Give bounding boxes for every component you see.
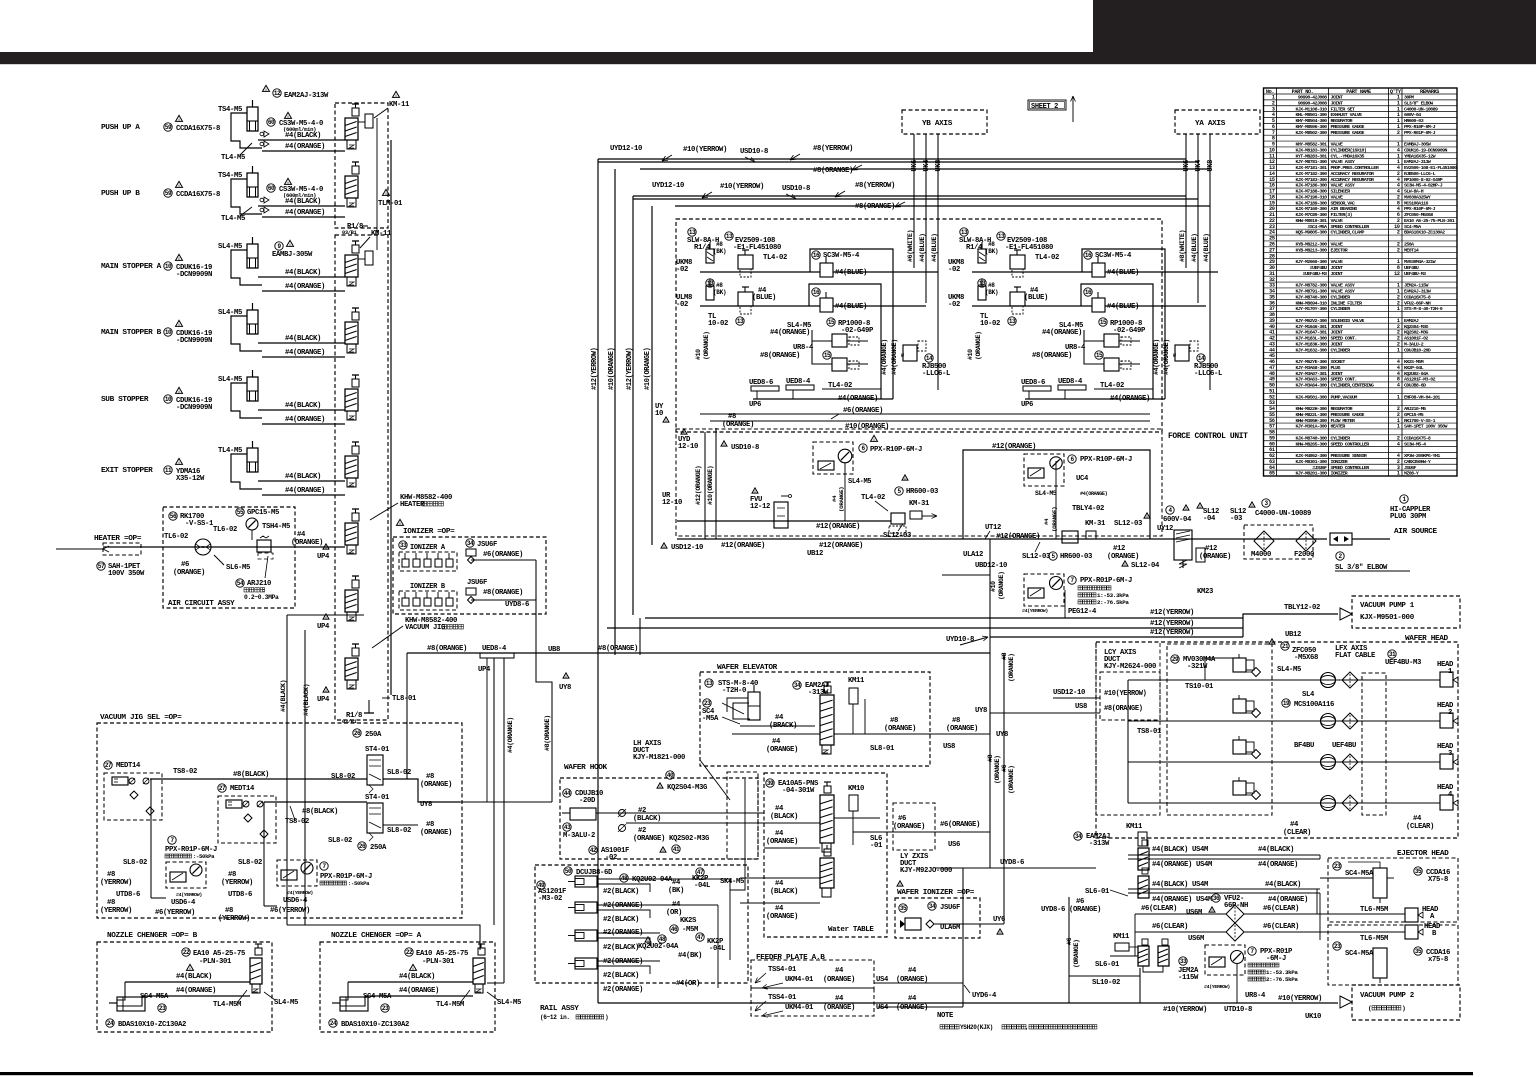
svg-text:KQ2U02-04A: KQ2U02-04A: [632, 876, 673, 884]
main air source bus: [677, 538, 1327, 540]
svg-text:#8(BLACK): #8(BLACK): [233, 771, 269, 779]
svg-text:KYB-M8213-300: KYB-M8213-300: [1295, 247, 1327, 253]
svg-text:ST4-01: ST4-01: [365, 794, 390, 802]
svg-text:CDUJB10-20D: CDUJB10-20D: [1404, 347, 1431, 353]
svg-text:C4000-UN-10089: C4000-UN-10089: [1255, 510, 1311, 518]
svg-text:15: 15: [824, 352, 831, 359]
svg-text:KJX-M7160-300: KJX-M7160-300: [1295, 206, 1327, 212]
svg-text:AS1001F-02: AS1001F-02: [1404, 336, 1428, 342]
svg-text:(BK): (BK): [713, 248, 726, 255]
svg-text:#10: #10: [990, 581, 997, 592]
svg-text:HEATER: HEATER: [1331, 424, 1346, 430]
svg-text:KHW-M8919-301: KHW-M8919-301: [1295, 218, 1327, 224]
head channel 4: [1128, 802, 1440, 804]
svg-text:FEEDER PLATE A.B: FEEDER PLATE A.B: [756, 954, 825, 962]
svg-text:!: !: [325, 616, 328, 622]
svg-text:#4(ORANGE): #4(ORANGE): [1258, 861, 1298, 869]
svg-text:): ): [605, 1014, 608, 1021]
svg-text:-01: -01: [870, 842, 883, 850]
svg-text:46: 46: [671, 926, 678, 933]
svg-text:1: 1: [1397, 347, 1400, 353]
svg-text:UY8: UY8: [559, 684, 571, 692]
svg-text:SL6-01: SL6-01: [1095, 961, 1120, 969]
vacuum jig sel dashed box: [97, 723, 462, 918]
svg-text:NOTE: NOTE: [937, 1012, 954, 1020]
svg-text:1: 1: [1397, 471, 1400, 477]
svg-text:(ORANGE) KQ2S02-M3G: (ORANGE) KQ2S02-M3G: [633, 835, 709, 843]
YB AXIS box: [902, 110, 987, 134]
part number SUB STOPPER: [164, 395, 172, 403]
svg-text:!: !: [325, 689, 328, 695]
svg-text:US6: US6: [948, 841, 960, 849]
svg-text:SOCKET: SOCKET: [1331, 359, 1346, 365]
svg-text:100V 350W: 100V 350W: [108, 570, 145, 578]
svg-text:#4: #4: [908, 995, 917, 1003]
svg-text:-04: -04: [1203, 515, 1216, 523]
svg-text:VACUUM PUMP 1: VACUUM PUMP 1: [1360, 602, 1415, 610]
svg-text:#10(YERROW): #10(YERROW): [720, 183, 764, 191]
svg-text:13: 13: [726, 233, 733, 240]
svg-text:10-02: 10-02: [708, 320, 728, 328]
svg-text:EXHAUST VALVE: EXHAUST VALVE: [1331, 112, 1363, 118]
svg-text:4: 4: [1397, 383, 1400, 389]
svg-text:(BK): (BK): [985, 289, 998, 296]
svg-text:M-3ALU-2: M-3ALU-2: [563, 832, 595, 840]
air circuit assy dashed box: [163, 507, 295, 608]
svg-text:54: 54: [237, 580, 244, 587]
svg-text:PUSH UP B: PUSH UP B: [101, 190, 140, 198]
svg-text:UB12: UB12: [1285, 631, 1301, 639]
svg-text:(BK): (BK): [713, 289, 726, 296]
svg-text:#12(ORANGE): #12(ORANGE): [992, 443, 1036, 451]
svg-text:1:-53.3kPa: 1:-53.3kPa: [1266, 969, 1298, 976]
svg-text:BF4BU: BF4BU: [1294, 742, 1314, 750]
svg-text:15: 15: [1100, 319, 1107, 326]
svg-text:2: 2: [1397, 247, 1400, 253]
svg-text:KM11: KM11: [848, 677, 865, 685]
svg-text:BDAS10X10-ZC130A2: BDAS10X10-ZC130A2: [341, 1021, 409, 1029]
svg-text:-6M-J: -6M-J: [1266, 955, 1286, 963]
svg-text:#8(ORANGE): #8(ORANGE): [1104, 705, 1143, 713]
duct outer dashed: [1096, 642, 1160, 815]
svg-text:#4: #4: [1043, 518, 1050, 525]
svg-text:SILENCER: SILENCER: [1331, 189, 1351, 195]
svg-text:UYD8-6: UYD8-6: [505, 601, 529, 609]
svg-text:#4(ORANGE) US4M: #4(ORANGE) US4M: [1152, 861, 1212, 869]
mid horizontal orange bus: [407, 652, 990, 654]
svg-text:#4(ORANGE): #4(ORANGE): [399, 987, 439, 995]
svg-text:UY8: UY8: [996, 731, 1008, 739]
svg-text:#4(ORANGE): #4(ORANGE): [176, 987, 216, 995]
svg-text:TL6-M5M: TL6-M5M: [1360, 935, 1388, 943]
svg-text:26: 26: [359, 843, 366, 850]
svg-text:KJY-M183K-300: KJY-M183K-300: [1295, 341, 1327, 347]
svg-text:MAIN STOPPER A: MAIN STOPPER A: [101, 263, 162, 271]
svg-text:UYD8-6: UYD8-6: [1041, 906, 1065, 914]
svg-text:SL12-03: SL12-03: [1114, 520, 1142, 528]
svg-text:UP4: UP4: [317, 553, 330, 561]
svg-text:MEDT14: MEDT14: [116, 762, 141, 770]
svg-text:#4(ORANGE): #4(ORANGE): [285, 209, 325, 217]
svg-text:KJX-M7182-300: KJX-M7182-300: [1295, 171, 1327, 177]
svg-text:PPX-R01P-6M-J: PPX-R01P-6M-J: [1080, 577, 1132, 585]
cylinder STS-M-8-40: [705, 679, 713, 687]
svg-text:UTD10-8: UTD10-8: [1224, 1006, 1252, 1014]
svg-text:-02: -02: [948, 301, 960, 309]
svg-text:SL8-02: SL8-02: [328, 837, 352, 845]
gauge PPX-R10P-6M-J left: [871, 435, 878, 441]
labels UYD 12-10: [681, 429, 687, 434]
heater load box: [103, 543, 141, 555]
svg-text:!: !: [665, 419, 668, 425]
wires jem2a: [1110, 955, 1138, 957]
silencer row2: [706, 279, 714, 287]
svg-text:#4(BLACK) US4M: #4(BLACK) US4M: [1152, 846, 1208, 854]
svg-text:US8: US8: [943, 743, 955, 751]
ejector cylinder 1: [1333, 862, 1341, 870]
part number EXIT STOPPER: [164, 466, 172, 474]
svg-text:SC3W-M5-4: SC3W-M5-4: [1404, 441, 1426, 447]
svg-text:#8: #8: [107, 899, 115, 907]
bottom yerrow bus: [598, 1002, 1338, 1004]
svg-text:US6M: US6M: [1188, 935, 1204, 943]
svg-text:42: 42: [590, 847, 597, 854]
svg-text:#6(CLEAR): #6(CLEAR): [1263, 923, 1299, 931]
svg-text:UYD6-4: UYD6-4: [972, 992, 997, 1000]
svg-text:VALVE: VALVE: [1331, 242, 1344, 248]
head bank feed lines: [1127, 680, 1129, 803]
svg-text:TL6-M5M: TL6-M5M: [1360, 906, 1388, 914]
ionizer drop wire: [535, 560, 537, 600]
svg-text:(ORANGE): (ORANGE): [291, 539, 323, 547]
svg-text:SPEED CONT.: SPEED CONT.: [1331, 377, 1357, 383]
svg-text:!: !: [399, 522, 402, 528]
svg-text:CYL.-YMDA16X35: CYL.-YMDA16X35: [1331, 153, 1365, 159]
svg-text:PRESSURE GAUGE: PRESSURE GAUGE: [1331, 124, 1365, 130]
svg-text:UC4: UC4: [1076, 475, 1089, 483]
svg-text:SL4-M5: SL4-M5: [1277, 666, 1301, 674]
svg-text:KJX-M7C89-300: KJX-M7C89-300: [1295, 212, 1327, 218]
svg-text:HEATER =OP=: HEATER =OP=: [94, 535, 142, 543]
svg-text:!: !: [178, 461, 181, 467]
svg-text:#12(ORANGE): #12(ORANGE): [721, 542, 765, 550]
heater SAH-1PET: [97, 562, 105, 570]
svg-text:#10: #10: [967, 349, 974, 360]
svg-text:!: !: [1185, 507, 1188, 513]
svg-text:EA10 A5-25-75: EA10 A5-25-75: [416, 950, 468, 958]
svg-text:EAM2AJ-313W: EAM2AJ-313W: [284, 92, 329, 100]
svg-text:SL12-03: SL12-03: [1022, 553, 1050, 561]
svg-text:JOINT: JOINT: [1331, 265, 1344, 271]
svg-text:KJY-M3A07-301: KJY-M3A07-301: [1295, 371, 1327, 377]
svg-text:SL6-M5: SL6-M5: [226, 564, 250, 572]
svg-text:UR8-4: UR8-4: [1065, 344, 1086, 352]
svg-text:KJX-M7183-300: KJX-M7183-300: [1295, 177, 1327, 183]
valve SC3W row2: [812, 288, 820, 296]
svg-text:19: 19: [1283, 700, 1290, 707]
flat cable dashed box: [1362, 673, 1386, 815]
svg-text:(ORANGE): (ORANGE): [1008, 653, 1015, 682]
svg-text:#4(ORANGE): #4(ORANGE): [285, 416, 325, 424]
svg-text:IONIZER: IONIZER: [1331, 471, 1348, 477]
svg-text:#12(ORANGE): #12(ORANGE): [816, 523, 860, 531]
svg-text:SC3W-M5-4-02HP-J: SC3W-M5-4-02HP-J: [1404, 183, 1443, 189]
svg-text:36: 36: [1213, 895, 1220, 902]
svg-text:1: 1: [1397, 394, 1400, 400]
prop controller EV2509-108: [997, 232, 1005, 240]
svg-text:#10(ORANGE): #10(ORANGE): [707, 466, 714, 505]
svg-text:IONIZER B: IONIZER B: [410, 583, 446, 591]
svg-text:-M3-02: -M3-02: [538, 895, 562, 903]
svg-text:250A: 250A: [365, 731, 382, 739]
svg-text:-DCN9909N: -DCN9909N: [176, 337, 212, 345]
svg-text:(6~12 in.: (6~12 in.: [540, 1014, 570, 1021]
wafer head dashed box: [1096, 642, 1458, 838]
svg-text:KJY-M1632-300: KJY-M1632-300: [1295, 347, 1327, 353]
svg-text:CYLINDER: CYLINDER: [1331, 347, 1351, 353]
manifold valve unit 8: [345, 590, 358, 612]
ionizer op dashed box: [393, 537, 546, 614]
svg-text:16: 16: [813, 289, 820, 296]
svg-text:CYLINDER,CENTERING: CYLINDER,CENTERING: [1331, 383, 1375, 389]
jig valve feed line: [287, 614, 364, 616]
svg-text:UTD8-6: UTD8-6: [228, 891, 252, 899]
svg-text:KJY-M3A68-300: KJY-M3A68-300: [1295, 365, 1327, 371]
svg-text:#4(BLUE): #4(BLUE): [1107, 269, 1139, 277]
silencer SLW-8A-H: [688, 228, 696, 236]
svg-text:34: 34: [929, 903, 936, 910]
svg-text:!: !: [1251, 504, 1254, 510]
svg-text:14: 14: [926, 355, 933, 362]
svg-text:EAM2AJ-313W: EAM2AJ-313W: [1404, 289, 1431, 295]
svg-text:!: !: [754, 490, 757, 496]
label 250A upper: [353, 729, 361, 737]
bundle 1 label leaders: [662, 155, 672, 161]
valve EA10A5-PNS: [766, 779, 774, 787]
svg-text:MAIN STOPPER B: MAIN STOPPER B: [101, 329, 162, 337]
svg-text:SAH-1PET 100V 350W: SAH-1PET 100V 350W: [1404, 424, 1448, 430]
svg-text:AS1201F-M3-02: AS1201F-M3-02: [1404, 377, 1436, 383]
UY8 drop jog: [536, 597, 552, 802]
top horizontal black band: [0, 52, 1536, 64]
svg-text:ULA12: ULA12: [963, 551, 983, 559]
bundle 2 label leaders: [702, 192, 712, 198]
svg-text:SC4-M5A: SC4-M5A: [1404, 224, 1421, 230]
manifold valve unit 1: [345, 118, 358, 140]
cylinder B: [117, 997, 145, 1011]
svg-text:!: !: [899, 883, 902, 889]
svg-text:-M5M: -M5M: [682, 926, 698, 934]
svg-text:#JSU6F: #JSU6F: [1312, 465, 1327, 471]
svg-text:KM23: KM23: [1197, 588, 1213, 596]
svg-text:TL4-M5M: TL4-M5M: [213, 1001, 241, 1009]
svg-text:-DCN9909N: -DCN9909N: [176, 404, 212, 412]
svg-text:41: 41: [673, 846, 680, 853]
svg-text:KHW-M822H-300: KHW-M822H-300: [1295, 406, 1327, 412]
svg-text:#6: #6: [1076, 898, 1084, 906]
svg-text:KHW-M305H-300: KHW-M305H-300: [1295, 418, 1327, 424]
svg-text:SC3W-M5-4: SC3W-M5-4: [823, 252, 860, 260]
svg-text:W: W: [901, 353, 904, 359]
svg-text:UY8: UY8: [975, 707, 987, 715]
svg-text:43: 43: [564, 824, 571, 831]
svg-text:44: 44: [564, 790, 571, 797]
svg-text:FILTER SET: FILTER SET: [1331, 106, 1355, 112]
svg-text:USD12-10: USD12-10: [1053, 689, 1085, 697]
svg-text:#8(ORANGE): #8(ORANGE): [544, 715, 551, 751]
svg-text:,: ,: [1025, 1024, 1028, 1031]
svg-text:KJX-M7186-300: KJX-M7186-300: [1295, 183, 1327, 189]
svg-text:KJY-M301A-300: KJY-M301A-300: [1295, 424, 1327, 430]
svg-text:(ORANGE): (ORANGE): [1199, 553, 1231, 561]
svg-text:-M5A: -M5A: [702, 715, 719, 723]
manifold valve unit 2: [345, 176, 358, 198]
svg-text:USD12-10: USD12-10: [671, 544, 703, 552]
svg-text:ZFC050-M5X68: ZFC050-M5X68: [1404, 212, 1433, 218]
svg-text:(ORANGE): (ORANGE): [896, 1004, 928, 1012]
svg-text:#4(ORANGE) US4M: #4(ORANGE) US4M: [1152, 896, 1212, 904]
svg-text:KJY-M1646-301: KJY-M1646-301: [1295, 324, 1327, 330]
silencer SLW-8A-H: [960, 228, 968, 236]
svg-text:35: 35: [1415, 868, 1422, 875]
svg-text:#8: #8: [228, 871, 236, 879]
part BDAS10X10 A: [329, 1019, 337, 1027]
prop controller EV2509-108: [725, 232, 733, 240]
svg-text:EJECTOR: EJECTOR: [1331, 247, 1348, 253]
svg-text:SL8-02: SL8-02: [387, 827, 411, 835]
svg-text:!: !: [1124, 563, 1127, 569]
svg-text:#8: #8: [988, 282, 995, 289]
svg-text:SL4-M5: SL4-M5: [274, 999, 298, 1007]
svg-text:USD10-8: USD10-8: [782, 185, 810, 193]
svg-text:#2: #2: [638, 807, 646, 815]
svg-text:39: 39: [767, 780, 774, 787]
svg-text:10: 10: [165, 263, 172, 270]
svg-text:SC4-M5A: SC4-M5A: [1345, 950, 1374, 958]
svg-text:(ORANGE): (ORANGE): [823, 976, 855, 984]
manifold valve unit 3: [345, 255, 358, 277]
svg-text:RP1000-8-02-G49P: RP1000-8-02-G49P: [1404, 177, 1443, 183]
svg-text:REGURATOR: REGURATOR: [1331, 118, 1353, 124]
svg-text:#4(YERROW): #4(YERROW): [1022, 608, 1048, 614]
svg-text:SL8-02: SL8-02: [331, 773, 355, 781]
svg-text:!: !: [723, 443, 726, 449]
svg-text:#6(WHITE): #6(WHITE): [907, 230, 914, 262]
svg-text:UEF4BU: UEF4BU: [1332, 742, 1356, 750]
svg-text:KJY-M2660-300: KJY-M2660-300: [1295, 259, 1327, 265]
svg-text:USD10-8: USD10-8: [740, 148, 768, 156]
svg-text:#4(BLACK): #4(BLACK): [285, 473, 321, 481]
svg-text:SL4-M5: SL4-M5: [497, 999, 521, 1007]
svg-text:FILTER(3): FILTER(3): [1331, 212, 1353, 218]
svg-text:#4: #4: [835, 995, 844, 1003]
svg-text:#8(ORANGE): #8(ORANGE): [1032, 352, 1072, 360]
svg-text:#8(ORANGE): #8(ORANGE): [483, 589, 523, 597]
svg-text:JOINT: JOINT: [1331, 371, 1344, 377]
svg-text:TBLY4-02: TBLY4-02: [1072, 505, 1104, 513]
svg-text:SC4-M5A: SC4-M5A: [140, 993, 169, 1001]
svg-text:UKM4-01: UKM4-01: [785, 976, 814, 984]
svg-text:13: 13: [737, 318, 744, 325]
svg-text:#4(BLUE): #4(BLUE): [835, 303, 867, 311]
wafer hook dashed box: [560, 778, 758, 859]
svg-text:UEF4BU: UEF4BU: [1404, 265, 1419, 271]
flow meter RK1700-V-SS-1: [169, 512, 177, 520]
svg-text:VALVE: VALVE: [1331, 142, 1344, 148]
wires to regulators: [1084, 330, 1104, 341]
svg-text:USD6-4: USD6-4: [171, 899, 196, 907]
svg-text:UP4: UP4: [478, 666, 491, 674]
orange dashed box: [893, 803, 935, 850]
wires to regulators: [812, 330, 832, 341]
svg-text:!: !: [999, 931, 1002, 937]
svg-text:!: !: [565, 675, 568, 681]
svg-text:10: 10: [165, 329, 172, 336]
svg-text:(ORANGE): (ORANGE): [420, 781, 452, 789]
svg-text:(ORANGE): (ORANGE): [838, 487, 845, 512]
svg-text:23: 23: [159, 1005, 166, 1012]
svg-text:RAIL ASSY: RAIL ASSY: [540, 1005, 579, 1013]
svg-text:#8: #8: [107, 871, 115, 879]
svg-text:x75-8: x75-8: [1428, 956, 1448, 964]
svg-text:31: 31: [1389, 651, 1396, 658]
svg-text:#6: #6: [1001, 764, 1008, 772]
svg-text:!: !: [873, 438, 876, 444]
svg-text:PEG12-4: PEG12-4: [1068, 608, 1097, 616]
svg-text:SENSOR,VAC: SENSOR,VAC: [1331, 200, 1355, 206]
svg-text:60: 60: [268, 185, 275, 192]
cluster bottom lines: [1025, 398, 1165, 400]
wire FVU line: [677, 520, 891, 522]
ejector head dashed box top: [1328, 858, 1458, 922]
svg-text:USD10-8: USD10-8: [731, 444, 759, 452]
svg-text:KYB-M8212-300: KYB-M8212-300: [1295, 242, 1327, 248]
svg-text:(ORANGE): (ORANGE): [946, 725, 978, 733]
gauge GPC15-M5 (air circuit): [236, 508, 244, 516]
svg-text:#UEF4BU: #UEF4BU: [1310, 265, 1327, 271]
svg-text:FORCE CONTROL UNIT: FORCE CONTROL UNIT: [1168, 432, 1248, 441]
svg-text:JOINT: JOINT: [1331, 95, 1344, 101]
svg-text:-PLN-301: -PLN-301: [199, 958, 232, 966]
svg-text:TS8-02: TS8-02: [173, 768, 197, 776]
PPX-R01P ejector: [1205, 945, 1245, 975]
svg-text:(YERROW): (YERROW): [100, 879, 132, 887]
label TLM-01: [383, 189, 390, 195]
svg-text:-E1-FL451080: -E1-FL451080: [1005, 244, 1053, 252]
svg-text:#4(ORANGE): #4(ORANGE): [1153, 339, 1160, 375]
svg-text:#4(ORANGE): #4(ORANGE): [507, 717, 514, 753]
svg-text:KHY-M8582-301: KHY-M8582-301: [1295, 142, 1327, 148]
wafer head valve bank box: [1167, 644, 1272, 815]
svg-text:MZ08-Y: MZ08-Y: [1404, 471, 1419, 477]
svg-text:SC3W-M5-4: SC3W-M5-4: [1095, 252, 1132, 260]
svg-text:VALVE ASSY: VALVE ASSY: [1331, 159, 1355, 165]
svg-text:16: 16: [1085, 252, 1092, 259]
svg-text:(BLACK): (BLACK): [633, 815, 661, 823]
svg-text:UR8-4: UR8-4: [793, 344, 814, 352]
svg-text:#2: #2: [638, 827, 646, 835]
svg-text:US4: US4: [876, 1004, 889, 1012]
svg-text:23: 23: [1334, 943, 1341, 950]
svg-text:0.2~0.3MPa: 0.2~0.3MPa: [244, 594, 279, 601]
ionizer A box: [399, 541, 407, 549]
svg-text:TSH4-M5: TSH4-M5: [262, 523, 290, 531]
svg-text:CYLINDER: CYLINDER: [1331, 306, 1351, 312]
svg-text:13: 13: [1009, 318, 1016, 325]
svg-text:EAM2AJ-313W: EAM2AJ-313W: [1404, 159, 1431, 165]
svg-text:#4(BLACK): #4(BLACK): [303, 684, 310, 716]
svg-text:YA AXIS: YA AXIS: [1195, 120, 1226, 128]
